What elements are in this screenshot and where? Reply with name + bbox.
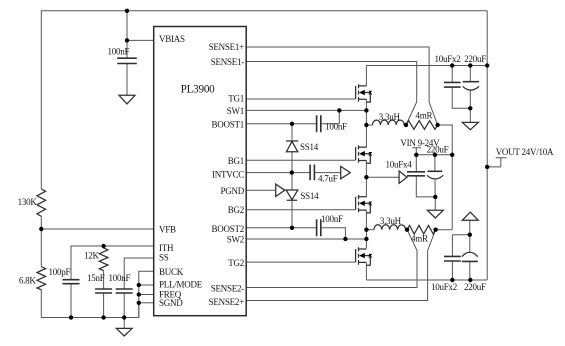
- value label C11: [427, 145, 449, 155]
- wire PGND to arrow: [246, 189, 276, 191]
- svg-text:100nF: 100nF: [109, 273, 131, 283]
- pin ITH: [159, 243, 174, 253]
- inductor L2 3.3uH phase2: [374, 225, 406, 230]
- value label L1: [379, 112, 401, 122]
- value label C4: [109, 273, 131, 283]
- ground bottom output caps pointing up: [462, 212, 478, 220]
- wire ground stem below rail: [123, 318, 125, 329]
- wire switch column M1 source to M2 drain: [365, 99, 367, 147]
- wire BOOST1 cap to SW1: [321, 110, 340, 123]
- capacitor C7 4.7uF INTVCC: [310, 165, 314, 181]
- wire SW1: [246, 109, 366, 111]
- svg-text:130K: 130K: [18, 197, 38, 207]
- wire SS to 100nF: [124, 258, 154, 289]
- value label C2: [49, 267, 71, 277]
- wire top 10uFx2 bottom: [452, 87, 470, 108]
- wire left divider vertical 130K to VFB node: [40, 216, 42, 266]
- svg-text:4mR: 4mR: [411, 234, 428, 244]
- wire VOUT terminal: [487, 158, 506, 167]
- wire TG1 gate: [246, 98, 355, 100]
- pin SENSE2-: [211, 283, 245, 293]
- svg-text:BOOST2: BOOST2: [211, 224, 244, 234]
- svg-text:TG1: TG1: [228, 93, 244, 103]
- wire bottom 10uFx2 bottom: [451, 261, 453, 280]
- wire BUCK to ground vertical: [139, 271, 154, 317]
- pin VBIAS: [159, 34, 185, 44]
- pin SW2: [227, 235, 244, 245]
- wire TG2 gate: [246, 261, 356, 263]
- svg-text:SGND: SGND: [159, 298, 183, 308]
- node VIN arrow: [399, 171, 407, 183]
- pin SENSE2+: [209, 297, 245, 307]
- value label C1: [108, 47, 130, 57]
- wire SGND stub: [139, 302, 154, 304]
- svg-text:SENSE2-: SENSE2-: [211, 283, 245, 293]
- wire switch column M2 source to M3 drain: [365, 161, 367, 197]
- wire bottom 220uF bottom: [469, 261, 471, 280]
- wire phase1 inductor line lead: [366, 124, 406, 126]
- capacitor C6 100nF boost2: [317, 219, 321, 236]
- wire FREQ stub: [139, 294, 154, 296]
- svg-text:PLL/MODE: PLL/MODE: [159, 280, 203, 290]
- wire switch column M3 source to M4 drain: [365, 210, 367, 248]
- wire INTVCC to 4.7uF: [246, 172, 310, 174]
- wire 12K to 15nF: [103, 271, 105, 289]
- wire VOUT bus vertical right side: [486, 11, 488, 280]
- wire phase2 inductor lead: [366, 229, 407, 231]
- ground top output caps: [462, 122, 478, 129]
- wire BOOST2 to cap: [246, 227, 316, 229]
- op-amp U1 PL3900 controller IC body: [154, 27, 247, 316]
- ground SGND bottom: [116, 328, 132, 336]
- svg-text:VFB: VFB: [159, 225, 176, 235]
- wire BOOST2 cap to SW2: [321, 228, 346, 239]
- capacitor C4 100nF soft-start: [116, 289, 133, 293]
- wire top 220uF bottom and gnd stem: [469, 90, 471, 122]
- node INTVCC arrow: [341, 166, 351, 178]
- svg-text:SS14: SS14: [300, 191, 319, 201]
- inductor L1 3.3uH phase1: [373, 120, 405, 125]
- transistor Q3 bottom switch phase2: [356, 195, 372, 213]
- wire SENSE2+ kelvin: [246, 230, 435, 301]
- net label VIN: [400, 138, 440, 148]
- capacitor C11 220uF VIN electrolytic: [427, 171, 443, 179]
- wire SENSE2- kelvin: [246, 230, 417, 288]
- value label C3: [87, 273, 105, 283]
- wire VIN rail: [416, 154, 452, 156]
- svg-text:VBIAS: VBIAS: [159, 34, 185, 44]
- svg-text:BG2: BG2: [228, 205, 244, 215]
- value label C5: [325, 122, 347, 132]
- wire switch column M1 drain to rail: [365, 66, 367, 86]
- svg-text:SS: SS: [159, 252, 169, 262]
- value label D1: [300, 142, 319, 152]
- wire top 10uFx2 from rail: [451, 66, 453, 83]
- svg-text:12K: 12K: [84, 250, 100, 260]
- wire VIN 220uF top: [434, 155, 436, 172]
- svg-text:10uFx4: 10uFx4: [386, 159, 413, 169]
- wire VBIAS to IC: [127, 39, 154, 41]
- svg-text:220uF: 220uF: [427, 145, 449, 155]
- node PGND arrow: [276, 184, 285, 196]
- pin BUCK: [159, 267, 184, 277]
- svg-text:TG2: TG2: [228, 258, 244, 268]
- transistor Q2 bottom switch phase1: [356, 145, 372, 163]
- svg-text:SENSE1+: SENSE1+: [209, 42, 245, 52]
- capacitor C9 220uF top output electrolytic: [463, 82, 479, 90]
- capacitor C1 100nF VBIAS bypass: [117, 58, 137, 63]
- svg-text:BUCK: BUCK: [159, 267, 184, 277]
- wire VIN node to arrow: [366, 176, 399, 178]
- capacitor C13 220uF bottom output electrolytic: [462, 252, 478, 261]
- wire 15nF bottom to rail: [103, 293, 105, 318]
- pin INTVCC: [212, 170, 244, 180]
- wire top feedback loop from divider to VOUT bus: [41, 11, 487, 189]
- capacitor C5 100nF boost1: [317, 115, 321, 132]
- value label C13: [464, 282, 486, 292]
- value label R5: [411, 234, 428, 244]
- wire SENSE1+ kelvin: [246, 47, 437, 125]
- value label R4: [416, 111, 433, 121]
- value label R2: [19, 276, 37, 286]
- pin FREQ: [159, 290, 182, 300]
- wire 100nF cap to ground: [126, 64, 128, 96]
- value label C10: [386, 159, 413, 169]
- wire top 220uF from rail: [469, 66, 471, 82]
- transistor Q4 top switch phase2: [356, 247, 372, 265]
- svg-text:100nF: 100nF: [321, 214, 343, 224]
- value label C6: [321, 214, 343, 224]
- capacitor C3 15nF compensation: [95, 289, 112, 293]
- transistor Q1 top switch phase1: [356, 84, 372, 102]
- pin BG2: [228, 205, 244, 215]
- pin TG1: [228, 93, 244, 103]
- diode D1 SS14 boost1: [286, 141, 298, 152]
- capacitor C10 10uFx4 VIN: [407, 172, 425, 176]
- diode D2 SS14 boost2: [286, 190, 298, 200]
- svg-text:INTVCC: INTVCC: [212, 170, 244, 180]
- svg-text:4.7uF: 4.7uF: [318, 174, 338, 184]
- svg-text:10uFx2: 10uFx2: [431, 282, 457, 292]
- value label L2: [380, 216, 402, 226]
- wire BG2 gate: [246, 209, 356, 211]
- value label D2: [300, 191, 319, 201]
- wire VIN terminal stem: [412, 148, 421, 155]
- resistor R1 130K upper feedback divider: [37, 189, 46, 216]
- wire phase1 4mR to VIN corner and down: [438, 125, 453, 230]
- value label C7: [318, 174, 338, 184]
- value label R1: [18, 197, 38, 207]
- svg-text:SENSE2+: SENSE2+: [209, 297, 245, 307]
- svg-text:3.3uH: 3.3uH: [379, 112, 401, 122]
- svg-text:SENSE1-: SENSE1-: [211, 57, 245, 67]
- value label C12: [431, 282, 457, 292]
- wire bottom caps top rail to up-ground stem: [452, 220, 469, 234]
- wire bottom 10uFx2 top: [451, 235, 453, 257]
- svg-text:BG1: BG1: [228, 156, 244, 166]
- pin PGND: [220, 186, 244, 196]
- pin BOOST2: [211, 224, 244, 234]
- svg-text:220uF: 220uF: [464, 282, 486, 292]
- svg-text:VOUT 24V/10A: VOUT 24V/10A: [496, 147, 554, 157]
- wire bottom 220uF top: [469, 235, 471, 252]
- ground VIN caps: [427, 210, 443, 218]
- wire SW2: [246, 238, 366, 240]
- resistor R2 6.8K lower feedback divider: [37, 267, 46, 290]
- svg-text:ITH: ITH: [159, 243, 174, 253]
- capacitor C2 100pF ITH: [63, 280, 80, 284]
- wire phase2 line corner to 4mR: [436, 229, 453, 231]
- svg-text:100nF: 100nF: [108, 47, 130, 57]
- resistor R5 4mR sense phase2: [407, 225, 436, 234]
- wire 100pF bottom to rail: [70, 284, 72, 318]
- wire VFB to IC: [41, 228, 153, 230]
- wire BG1 gate: [246, 159, 355, 161]
- pin PLL/MODE: [159, 280, 203, 290]
- wire 100nF SS bottom to rail: [123, 293, 125, 318]
- pin SW1: [227, 106, 244, 116]
- pin TG2: [228, 258, 244, 268]
- svg-text:3.3uH: 3.3uH: [380, 216, 402, 226]
- wire VBIAS branch from top rail: [126, 11, 128, 58]
- svg-text:SW2: SW2: [227, 235, 244, 245]
- pin VFB: [159, 225, 176, 235]
- pin BOOST1: [211, 120, 244, 130]
- value label C8: [435, 54, 461, 64]
- wire top VOUT rail: [366, 65, 487, 67]
- wire 6.8K to bottom rail and bottom ground rail: [41, 290, 139, 318]
- svg-text:4mR: 4mR: [416, 111, 433, 121]
- wire BOOST1 to cap: [246, 123, 316, 125]
- ground below C1: [119, 95, 135, 104]
- wire 10uFx4 top: [415, 155, 417, 172]
- wire SENSE1- kelvin: [246, 62, 417, 126]
- pin SENSE1-: [211, 57, 245, 67]
- svg-text:10uFx2: 10uFx2: [435, 54, 461, 64]
- capacitor C12 10uFx2 bottom output: [444, 256, 461, 261]
- wire ITH compensation branch: [71, 246, 154, 280]
- wire PLL/MODE stub: [139, 284, 154, 286]
- svg-text:SS14: SS14: [300, 142, 319, 152]
- wire VIN 220uF bottom: [434, 180, 436, 197]
- net label VOUT: [496, 147, 554, 157]
- wire 4.7uF to arrow: [314, 172, 340, 174]
- wire bottom VOUT rail: [366, 279, 487, 281]
- svg-text:220uF: 220uF: [464, 54, 486, 64]
- value label C9: [464, 54, 486, 64]
- svg-text:6.8K: 6.8K: [19, 276, 37, 286]
- pin BG1: [228, 156, 244, 166]
- svg-text:100pF: 100pF: [49, 267, 71, 277]
- svg-text:BOOST1: BOOST1: [211, 120, 244, 130]
- svg-text:PL3900: PL3900: [181, 83, 216, 95]
- value label R3: [84, 250, 100, 260]
- pin SS: [159, 252, 169, 262]
- resistor R4 4mR sense phase1: [406, 121, 438, 130]
- svg-text:15nF: 15nF: [87, 273, 105, 283]
- svg-text:SW1: SW1: [227, 106, 244, 116]
- pin SENSE1+: [209, 42, 245, 52]
- wire bootstrap diode column vertical: [291, 124, 293, 228]
- svg-text:100nF: 100nF: [325, 122, 347, 132]
- wire VIN gnd stem: [434, 197, 436, 210]
- capacitor C8 10uFx2 top output: [444, 82, 461, 87]
- wire switch column M4 source to bottom rail: [365, 263, 367, 280]
- pin SGND: [159, 298, 183, 308]
- wire 10uFx4 bottom to gnd rail: [416, 176, 435, 197]
- resistor R3 12K ITH compensation: [99, 246, 108, 271]
- svg-text:PGND: PGND: [220, 186, 244, 196]
